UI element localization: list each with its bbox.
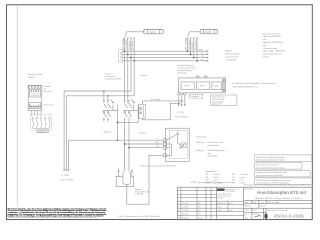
node L1/common <box>117 139 119 141</box>
svg-text:Steuerung: Steuerung <box>43 90 51 93</box>
logo bar <box>217 189 225 191</box>
title block outer <box>177 187 312 219</box>
cable pointer line 1 <box>125 32 144 37</box>
terminal strip right <box>222 79 224 93</box>
wire W4 PE drop to corner <box>133 38 135 96</box>
svg-text:6 Antriebe E250/E1500: 6 Antriebe E250/E1500 <box>263 41 284 44</box>
svg-text:N SW/GY: N SW/GY <box>192 40 194 50</box>
revision entries <box>178 202 203 220</box>
wire mains L1 <box>178 95 180 106</box>
filing margin line <box>16 5 18 206</box>
svg-text:nach zugelassenen Vorschriften: nach zugelassenen Vorschriften <box>256 174 283 177</box>
svg-text:5x1,5: 5x1,5 <box>205 32 211 34</box>
terminal loop 1 <box>196 75 200 78</box>
svg-text:abgesichert: abgesichert <box>212 103 222 106</box>
svg-text:PE GNYE: PE GNYE <box>195 40 197 50</box>
svg-text:Wind: Wind <box>184 86 190 88</box>
svg-text:CA05, CA45, CA60/230V: CA05, CA45, CA60/230V <box>263 50 286 53</box>
svg-text:Netzspannung allpolig abschalt: Netzspannung allpolig abschalten! <box>256 158 285 161</box>
module Wind 2 <box>197 82 210 90</box>
svg-text:bauseitig: bauseitig <box>120 52 123 60</box>
svg-text:Netz 230V AC: Netz 230V AC <box>175 116 189 119</box>
svg-text:Vor Arbeiten an der Steuerung: Vor Arbeiten an der Steuerung die <box>256 156 284 159</box>
unit inner frame <box>170 130 188 158</box>
svg-text:Rauchabzugsanlage: Rauchabzugsanlage <box>208 150 225 152</box>
timer body <box>28 85 42 110</box>
svg-text:(Automatik): (Automatik) <box>208 155 218 158</box>
motor arrows <box>118 171 120 177</box>
svg-text:Anschlussplan E70 mit: Anschlussplan E70 mit <box>257 190 307 195</box>
note box A <box>255 155 312 162</box>
svg-text:= braun: = braun <box>213 173 219 176</box>
junction dots on bus <box>124 50 198 61</box>
note box D <box>255 178 313 185</box>
wire drop to contact b <box>107 96 109 103</box>
timer top terminals <box>29 86 41 88</box>
stamp blob <box>264 213 267 219</box>
svg-text:AUF SW/BN: AUF SW/BN <box>122 38 125 50</box>
svg-text:5x1,5: 5x1,5 <box>150 32 156 34</box>
wire common rail group 2 to group 1 <box>117 121 138 123</box>
wire AUF to unit <box>125 143 164 145</box>
svg-text:oder: oder <box>263 39 267 41</box>
svg-text:Gruppe 1: Gruppe 1 <box>140 74 148 77</box>
note drehschalter <box>196 135 225 157</box>
svg-text:5: 5 <box>38 104 39 106</box>
timer pins <box>31 110 41 115</box>
contact S2b <box>107 100 111 121</box>
timer hatch strip <box>29 106 41 108</box>
svg-text:PE GNYE: PE GNYE <box>133 40 135 50</box>
svg-text:SW: SW <box>232 174 235 176</box>
svg-text:N SW/GY: N SW/GY <box>129 40 131 50</box>
svg-text:Netz 230V AC: Netz 230V AC <box>60 179 74 182</box>
contact S1 coupling bar <box>123 110 139 112</box>
wire W8 drop <box>196 38 198 61</box>
svg-text:Da keinen maximal: Da keinen maximal <box>263 33 281 35</box>
socket bottom bar <box>37 130 48 133</box>
svg-text:11.03.99: 11.03.99 <box>182 206 188 208</box>
svg-text:= grau: = grau <box>239 176 244 179</box>
terminal loop 2 <box>204 75 208 78</box>
smoke unit body <box>165 128 189 161</box>
svg-text:1: 1 <box>180 134 181 136</box>
svg-text:L1: L1 <box>157 138 159 140</box>
unit terminals <box>163 139 166 157</box>
bus line ZU <box>122 53 208 55</box>
cable marker capsule K2 <box>200 30 218 34</box>
svg-text:entsprechend: entsprechend <box>226 56 239 59</box>
wire motor ZU <box>128 117 130 170</box>
wire W2 ZU drop to Gruppe 1 <box>127 38 129 103</box>
rotated core labels group 2 <box>185 38 198 50</box>
wire W6 drop <box>190 38 192 55</box>
svg-text:a: a <box>178 210 179 212</box>
wire drop to L1 <box>116 122 118 140</box>
svg-text:oder: oder <box>263 45 267 47</box>
cable marker capsule K1 <box>144 29 164 33</box>
cable pointer line 2 <box>188 32 200 37</box>
motor M1 body <box>116 176 133 186</box>
contact S2 arrow <box>111 99 114 102</box>
note box B <box>255 163 302 170</box>
svg-text:1: 1 <box>30 104 31 106</box>
svg-text:ISO 16016 be-: ISO 16016 be- <box>225 191 236 193</box>
wire H-B <box>66 96 134 171</box>
svg-text:= grün: = grün <box>213 179 218 182</box>
contact S2a <box>103 100 107 121</box>
wire motor AUF <box>124 117 126 170</box>
wire return loop <box>142 103 178 120</box>
svg-text:= blau: = blau <box>213 177 218 179</box>
note fuer anschluss sensors <box>232 82 278 89</box>
wire return loop motor <box>127 155 164 204</box>
svg-text:Regen: Regen <box>214 86 220 88</box>
mains arrows controller <box>178 104 186 106</box>
contact S1b <box>128 100 132 117</box>
contact S1 arrow <box>131 99 134 102</box>
timer bottom row <box>29 103 41 106</box>
rotated core labels group 1 <box>122 38 135 50</box>
wire end ticks group 1 <box>124 37 135 39</box>
svg-text:Das Gerät nur in trockenen: Das Gerät nur in trockenen <box>256 164 279 167</box>
svg-text:und staubfreien Räumen einsetz: und staubfreien Räumen einsetzen <box>256 166 285 169</box>
note andere motoren <box>226 50 241 62</box>
contact S1a <box>124 100 128 117</box>
title block mid column <box>216 187 218 219</box>
bauseitig marker <box>119 50 123 62</box>
svg-text:Drehschalter aktiv: Drehschalter aktiv <box>208 141 223 144</box>
svg-text:Name: Name <box>253 210 257 212</box>
mains arrows <box>63 169 69 171</box>
rotary switch <box>166 131 181 144</box>
wire W3 N drop to corner <box>130 38 132 91</box>
svg-text:paralel angeschlossen: paralel angeschlossen <box>263 54 283 56</box>
motor plug <box>123 172 131 185</box>
svg-text:4 Antriebe 230V AC mit Regen-/: 4 Antriebe 230V AC mit Regen-/Wind 1:1- … <box>254 197 302 200</box>
svg-text:Drehschalter: Drehschalter <box>196 135 207 138</box>
note box netzanschluss <box>211 95 237 106</box>
socket dashed box <box>31 114 52 130</box>
node on N wire <box>181 100 183 102</box>
svg-text:Für Anschluss des Windfühlers,: Für Anschluss des Windfühlers, Regenfühl… <box>232 82 278 85</box>
svg-text:behalten wir uns vor. Montage-: behalten wir uns vor. Montage- und Betri… <box>8 215 104 218</box>
svg-text:Ein Signal: Ein Signal <box>151 99 161 101</box>
revision table <box>177 187 243 219</box>
svg-text:an beide Geräte- und Vertriebs: an beide Geräte- und Vertriebsanlagen. <box>256 182 290 185</box>
bus line AUF <box>122 50 208 52</box>
svg-text:Gruppe 1: Gruppe 1 <box>139 131 149 134</box>
svg-text:L1 N PE: L1 N PE <box>61 175 69 177</box>
svg-text:Benennung: Benennung <box>244 188 252 190</box>
svg-text:0: 0 <box>177 131 178 133</box>
svg-text:anschließen.: anschließen. <box>226 60 238 62</box>
svg-text:siehe 45005-9-0986 Bl.1 - 2: siehe 45005-9-0986 Bl.1 - 2 <box>232 87 258 89</box>
wire W5 drop <box>186 38 188 52</box>
socket bottom bus <box>33 127 49 129</box>
svg-text:Masse im Sockel: Masse im Sockel <box>28 74 43 76</box>
wire Ein Signal <box>142 101 181 105</box>
svg-text:ZU SW/BU: ZU SW/BU <box>126 39 128 50</box>
svg-text:Gruppe 2: Gruppe 2 <box>103 130 113 133</box>
note gruppe 2 mit gruppe 1 <box>105 73 122 81</box>
svg-text:Stellung 0:: Stellung 0: <box>196 141 205 144</box>
svg-text:(Handbetrieb): (Handbetrieb) <box>208 144 220 147</box>
motor label <box>135 188 149 196</box>
node rail <box>117 122 119 124</box>
svg-text:Name: Name <box>229 210 233 212</box>
svg-text:b: b <box>178 206 179 208</box>
svg-text:Die Richtlinien der Projektier: Die Richtlinien der Projektierungs- mapp… <box>256 179 291 182</box>
svg-text:Last: Last <box>40 130 44 133</box>
svg-text:Motorengrößen: Motorengrößen <box>226 53 241 56</box>
controller body <box>179 78 226 93</box>
svg-text:ZU SW/BU: ZU SW/BU <box>189 39 191 50</box>
bus line N <box>122 57 207 59</box>
svg-text:1,7A 230V: 1,7A 230V <box>135 193 144 196</box>
signature scribble <box>254 215 261 217</box>
node on L1 wire <box>178 103 180 105</box>
wire W7 drop <box>193 38 195 58</box>
svg-text:aktiv: aktiv <box>208 152 212 155</box>
socket pin numbers <box>32 116 49 118</box>
small cells text <box>244 201 288 219</box>
svg-text:Steuerung: Steuerung <box>178 72 187 75</box>
contact S1 output pair <box>134 105 139 123</box>
node motor AUF <box>124 143 126 145</box>
node drop B <box>107 95 109 97</box>
contact S2 output pair <box>113 105 118 123</box>
wire W1 AUF drop to Gruppe 1 <box>124 38 126 103</box>
svg-text:Adernfarben:: Adernfarben: <box>205 170 216 173</box>
svg-text:Stellung 1:: Stellung 1: <box>196 149 205 152</box>
title block grid right <box>244 200 313 219</box>
wire drop to contact a <box>103 91 105 103</box>
bus line PE <box>122 60 208 62</box>
svg-text:Wind: Wind <box>200 86 206 88</box>
fernbed box <box>190 94 203 98</box>
svg-text:= schwarz: = schwarz <box>239 173 248 176</box>
note max antriebe <box>263 33 286 58</box>
svg-text:Referenz 10: Referenz 10 <box>43 105 53 107</box>
socket contacts <box>32 118 50 129</box>
svg-text:L1 N PE: L1 N PE <box>177 112 185 114</box>
wire H-A <box>64 91 131 170</box>
controller bottom terminals <box>178 93 186 95</box>
svg-text:AUF SW/BN: AUF SW/BN <box>185 38 188 50</box>
relay arrow <box>179 145 183 149</box>
wire mains PE <box>184 95 186 106</box>
svg-text:= rot: = rot <box>239 179 243 182</box>
timer side labels <box>43 85 53 107</box>
svg-text:5 Kettenantriebe: 5 Kettenantriebe <box>263 47 279 50</box>
internal wires <box>166 143 181 155</box>
svg-text:Rauchabzugszentrale E70: Rauchabzugszentrale E70 <box>140 165 177 168</box>
node drop A <box>103 90 105 92</box>
svg-text:= weiß: = weiß <box>239 182 245 184</box>
bus terminal labels <box>199 49 205 62</box>
svg-text:zusammenschließen: zusammenschließen <box>105 79 122 81</box>
connector X1 <box>139 104 146 118</box>
wire L1 bus <box>68 140 163 170</box>
svg-text:Fernbed.: Fernbed. <box>192 95 200 98</box>
node motor ZU <box>128 147 130 149</box>
svg-text:4 Antriebe E50/230V: 4 Antriebe E50/230V <box>263 35 282 38</box>
module Wind 1 <box>181 82 194 90</box>
svg-text:Leitungsverlegung und Absicher: Leitungsverlegung und Absicherung <box>256 171 286 174</box>
relay box inside unit <box>181 143 186 148</box>
svg-text:AUF: AUF <box>199 49 204 52</box>
contact S2 coupling bar <box>102 110 118 112</box>
svg-text:230V AC: 230V AC <box>28 76 36 79</box>
svg-text:ZU: ZU <box>201 53 204 55</box>
wire link to signal connector <box>138 107 140 109</box>
bus end terminal marks <box>206 51 208 62</box>
svg-text:24.05.99: 24.05.99 <box>182 203 188 205</box>
note box C <box>255 170 310 177</box>
svg-text:27.01.99: 27.01.99 <box>182 210 188 212</box>
wire ZU to unit <box>129 147 163 149</box>
module Regen <box>212 82 222 90</box>
wire mains N <box>181 95 183 106</box>
svg-text:werden.: werden. <box>263 57 271 59</box>
note above controller <box>178 64 196 75</box>
unit input labels <box>155 138 160 148</box>
svg-text:PE: PE <box>201 59 204 61</box>
svg-text:05.11.98: 05.11.98 <box>182 214 188 216</box>
svg-text:45004-9-0986: 45004-9-0986 <box>274 214 305 219</box>
svg-text:Andere: Andere <box>226 50 234 53</box>
wire end ticks group 2 <box>187 37 198 39</box>
timer display box <box>30 89 41 97</box>
